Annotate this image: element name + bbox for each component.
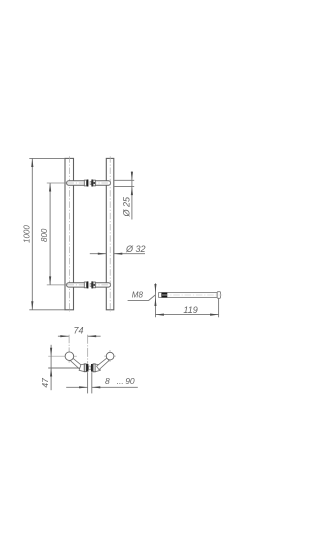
arrow down bbox=[50, 348, 52, 357]
circle c1 bbox=[65, 352, 74, 361]
arrow up to lower edge bbox=[131, 187, 133, 196]
arrow down to upper edge bbox=[131, 172, 133, 181]
dim line right part bbox=[92, 386, 138, 388]
bottom standoff connector bbox=[47, 281, 112, 288]
svg-text:...: ... bbox=[117, 376, 124, 386]
M8 dim line (also 119 left ext) bbox=[154, 283, 156, 317]
svg-text:M8: M8 bbox=[132, 291, 144, 300]
ext line bottom bbox=[48, 367, 80, 369]
spacer bbox=[90, 182, 91, 185]
rod body bbox=[159, 293, 218, 298]
right washer bbox=[93, 282, 95, 288]
arrow right (tip at left ext) bbox=[60, 335, 69, 337]
circle c2 crosshair h bbox=[104, 355, 115, 357]
left washer bbox=[84, 180, 86, 186]
tube 2 (right vertical tube) bbox=[106, 158, 114, 309]
M8 arrow down bbox=[154, 284, 156, 293]
svg-text:Ø 32: Ø 32 bbox=[125, 244, 146, 254]
svg-text:90: 90 bbox=[125, 376, 135, 386]
end cap bbox=[217, 292, 220, 299]
door face right bbox=[91, 372, 93, 393]
connector centerline bbox=[47, 182, 68, 184]
right cone bar bbox=[91, 180, 93, 187]
rod centerline bbox=[162, 294, 222, 296]
ext line top bbox=[29, 157, 65, 159]
dim line bbox=[131, 171, 133, 219]
dim line 800 bbox=[49, 183, 51, 285]
circle c1 crosshair h bbox=[48, 355, 77, 357]
left arrow bbox=[98, 253, 107, 255]
right arrow line bbox=[114, 253, 145, 255]
svg-text:8: 8 bbox=[105, 376, 110, 386]
spacer bbox=[90, 283, 91, 286]
right cone bar bbox=[91, 281, 93, 288]
dim line 1000 bbox=[31, 159, 33, 310]
circle c2 bbox=[106, 352, 114, 360]
arrow down bbox=[49, 276, 51, 285]
dim line bbox=[58, 335, 69, 337]
arrow right (tip at left door face) bbox=[79, 386, 88, 388]
119 arrow left bbox=[155, 314, 163, 316]
center axis line (above fitting) bbox=[87, 335, 89, 365]
left washer bbox=[84, 282, 86, 288]
right arrow bbox=[114, 253, 123, 255]
screw dot bbox=[94, 284, 95, 286]
ext line upper bbox=[114, 179, 134, 181]
svg-text:74: 74 bbox=[74, 326, 84, 336]
M8 arrow up bbox=[154, 298, 156, 307]
top standoff connector bbox=[47, 180, 112, 187]
left washer bbox=[84, 364, 86, 372]
ext line lower bbox=[114, 186, 134, 188]
M8 leader bbox=[128, 295, 156, 301]
left capsule bbox=[67, 181, 87, 185]
119 dim line bbox=[155, 314, 218, 316]
119 arrow right bbox=[210, 314, 219, 316]
tube 1 centerline bbox=[69, 156, 71, 312]
left cone bar bbox=[86, 364, 88, 372]
left cone bar bbox=[87, 180, 89, 187]
spacer through door bbox=[89, 366, 91, 370]
tube 2 centerline bbox=[109, 156, 111, 312]
right arm bbox=[97, 358, 109, 370]
arrow left (tip at center line) bbox=[88, 335, 97, 337]
left arrow line bbox=[90, 253, 107, 255]
connector centerline bbox=[47, 284, 68, 286]
119 right ext line bbox=[218, 299, 220, 318]
thread section M8 (black) bbox=[161, 293, 167, 298]
arrow up bbox=[49, 183, 51, 192]
right capsule bbox=[93, 181, 111, 185]
svg-text:1000: 1000 bbox=[22, 225, 31, 243]
svg-text:119: 119 bbox=[183, 305, 197, 315]
door face left bbox=[87, 372, 89, 393]
right washer bbox=[93, 180, 95, 186]
arrow left (tip at right door face) bbox=[92, 386, 101, 388]
left capsule bbox=[67, 283, 87, 287]
screw dot bbox=[94, 182, 95, 184]
arrow down bbox=[31, 301, 33, 310]
left cone bar bbox=[87, 281, 89, 288]
svg-text:800: 800 bbox=[40, 228, 49, 242]
dim line left part bbox=[66, 386, 87, 388]
arrow up bbox=[31, 159, 33, 168]
circle c1 crosshair v / 74 left ext bbox=[68, 335, 70, 363]
arrow up bbox=[50, 368, 52, 377]
left arm bbox=[70, 358, 82, 370]
circle c2 crosshair v bbox=[109, 350, 111, 362]
dim line bbox=[50, 345, 52, 390]
right washer bbox=[93, 364, 95, 372]
right cone bar bbox=[91, 364, 93, 372]
ext line bottom bbox=[29, 309, 65, 311]
tube 1 (left vertical tube) bbox=[65, 158, 74, 309]
svg-text:47: 47 bbox=[40, 378, 50, 388]
right capsule bbox=[93, 283, 111, 287]
left trapezoid bbox=[79, 364, 84, 372]
svg-text:Ø 25: Ø 25 bbox=[121, 196, 131, 218]
right trapezoid bbox=[95, 364, 100, 372]
